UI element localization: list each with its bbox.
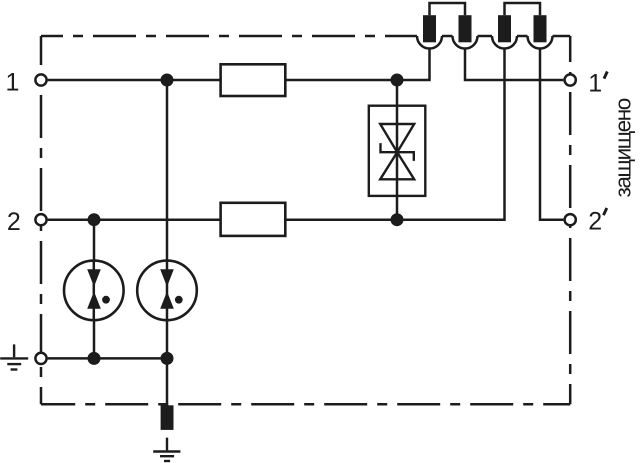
enclosure border bottom (dash-dot) xyxy=(41,403,570,406)
choke L1 winding b cup xyxy=(453,36,478,49)
TVS suppressor diode box xyxy=(369,106,426,196)
resistor R1 xyxy=(221,64,286,96)
junction dot line1/TVS xyxy=(391,74,404,87)
terminal 2 xyxy=(35,214,46,225)
wire line 2 from terminal 2 to resistor R2 xyxy=(48,218,221,221)
choke L2 core bar a xyxy=(498,15,511,42)
choke L1 top bridge wire xyxy=(430,3,466,15)
wire ground line from ground terminal xyxy=(48,357,167,360)
terminal 2' xyxy=(565,214,576,225)
wire through TVS box xyxy=(396,106,399,196)
terminal 1 xyxy=(35,74,46,85)
wire line 1 from R1 to choke L1 winding a xyxy=(285,49,429,81)
choke L1 winding a cup xyxy=(417,36,442,49)
wire from choke L1 winding b down and right to terminal 1' xyxy=(465,49,563,81)
F2 lower arrow (up) xyxy=(160,291,174,308)
svg-text:защищено: защищено xyxy=(611,98,636,197)
junction dot ground/F1 xyxy=(88,352,101,365)
gas discharge tube F2 circle xyxy=(137,261,197,321)
svg-text:1: 1 xyxy=(6,69,20,97)
terminal 1' xyxy=(565,74,576,85)
enclosure border right (dash-dot) xyxy=(569,36,572,404)
wire gas discharge tube F2 vertical down to base contact xyxy=(166,80,169,405)
earth symbol bottom xyxy=(153,438,180,461)
F1 trigger dot xyxy=(102,296,110,304)
base contact black bar xyxy=(161,405,174,430)
junction dot line2/TVS xyxy=(391,213,404,226)
svg-text:2: 2 xyxy=(588,208,602,236)
choke L2 winding b cup xyxy=(528,36,553,49)
junction dot ground/F2 xyxy=(161,352,174,365)
enclosure border top (dash-dot) xyxy=(41,35,413,38)
junction dot line1/F2 xyxy=(161,74,174,87)
wire through F2 xyxy=(166,261,169,321)
resistor R2 xyxy=(221,203,286,236)
junction dot line2/F1 xyxy=(88,213,101,226)
choke L1 core bar a xyxy=(423,15,436,42)
TVS upper diode triangle xyxy=(380,124,414,152)
choke L2 core bar b xyxy=(534,15,547,42)
F1 upper arrow (down) xyxy=(87,269,101,287)
choke L2 winding a cup xyxy=(492,36,517,49)
TVS lower diode triangle xyxy=(380,152,414,179)
wire from choke L2 winding b down and right to terminal 2' xyxy=(540,49,563,220)
enclosure border left (dash-dot) xyxy=(40,36,43,404)
ground terminal xyxy=(35,353,46,364)
choke baseline segments on top border xyxy=(413,35,570,38)
F2 upper arrow (down) xyxy=(160,269,174,287)
wire TVS branch vertical xyxy=(396,80,399,220)
wire line 2 from R2 to choke L2 winding a xyxy=(285,49,504,220)
F1 lower arrow (up) xyxy=(87,291,101,308)
F2 trigger dot xyxy=(175,296,183,304)
wire through F1 xyxy=(93,261,96,321)
svg-text:1: 1 xyxy=(588,69,602,97)
wire gas discharge tube F1 vertical xyxy=(93,220,96,359)
earth symbol left xyxy=(0,344,28,369)
gas discharge tube F1 circle xyxy=(64,261,124,321)
svg-text:2: 2 xyxy=(7,208,21,236)
choke L2 top bridge wire xyxy=(505,3,541,15)
choke L1 core bar b xyxy=(459,15,472,42)
TVS zener bar with hooks xyxy=(381,143,414,161)
wire line 1 from terminal 1 to resistor R1 xyxy=(48,79,221,82)
